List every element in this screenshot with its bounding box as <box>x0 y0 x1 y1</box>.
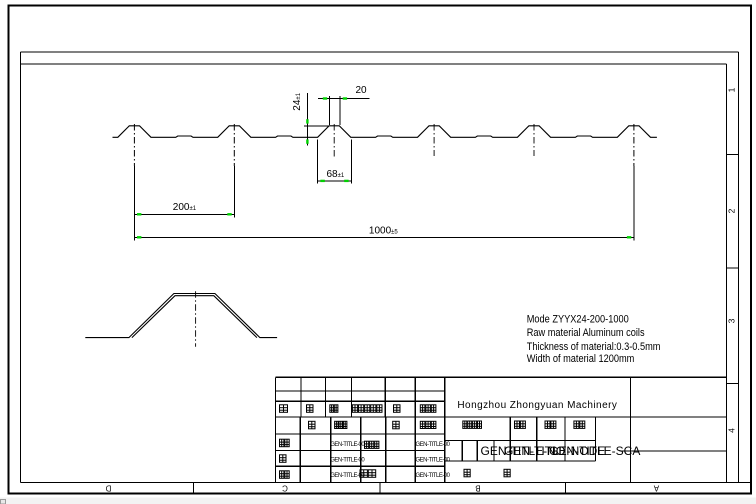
dim 68 ext line left <box>316 140 318 184</box>
zone tick bottom x=193.3 <box>192 483 194 494</box>
dim 1000 arrow left <box>137 236 141 238</box>
title block lower column line x=330.7 <box>330 417 332 483</box>
title block row line r2 (left) <box>276 400 445 402</box>
dim 24 line vertical <box>306 93 308 146</box>
svg-text:Raw material Aluminum coils: Raw material Aluminum coils <box>527 328 645 340</box>
dim 68 arrow left <box>320 180 324 182</box>
label nianyueri 2 <box>335 421 347 428</box>
title block lower column line x=385.8 <box>385 417 387 483</box>
title block right label row bottom <box>445 440 596 442</box>
dim 1000 line <box>134 236 634 238</box>
title block upper column line x=325.6 <box>325 377 327 417</box>
dim 20 arrow right <box>343 97 347 99</box>
dim 20 line <box>318 98 370 100</box>
rib centerline extension x=134 <box>133 166 135 241</box>
rib centerline x=234 <box>233 124 235 166</box>
zone tick right y=268.2 <box>727 267 739 269</box>
title block stage-mark box line x=477.3 <box>476 441 478 462</box>
title block right cell line x=565.0 <box>564 417 566 461</box>
title block right GEN row bottom <box>445 460 596 462</box>
zone tick right y=154.5 <box>727 154 739 156</box>
label qianming 3 <box>393 421 400 429</box>
svg-text:GEN-TITLE-00: GEN-TITLE-00 <box>330 473 365 479</box>
title block lower column line x=300.3 <box>299 417 301 483</box>
title block right cells right edge <box>595 417 597 461</box>
svg-text:GEN-TITLE-00: GEN-TITLE-00 <box>330 442 365 448</box>
rib centerline extension x=634 <box>633 166 635 241</box>
svg-text:B: B <box>475 484 480 493</box>
label bili (scale) <box>574 421 585 428</box>
dim 24 arrow upper <box>306 119 308 123</box>
detail view centerline <box>195 291 197 347</box>
detail view rib inner line (material thickness) <box>132 296 257 338</box>
svg-text:2: 2 <box>726 208 736 213</box>
label fenqu (zone) <box>330 405 338 413</box>
rib centerline x=534 <box>533 124 535 156</box>
svg-text:20: 20 <box>356 85 368 96</box>
title block upper column line x=300.9 <box>300 377 302 417</box>
dim 1000 arrow right <box>627 236 631 238</box>
title block row line r6 (left) <box>276 465 445 467</box>
inner frame right line <box>726 64 728 483</box>
scale placeholder line <box>619 450 726 452</box>
dim 68 line <box>317 180 351 182</box>
zone tick right y=383.6 <box>727 383 739 385</box>
svg-text:Mode ZYYX24-200-1000: Mode ZYYX24-200-1000 <box>527 314 629 326</box>
label biaoji (mark) <box>280 405 288 413</box>
window bottom gray strip <box>0 498 756 504</box>
svg-text:GEN-TITLE-00: GEN-TITLE-00 <box>416 442 451 448</box>
title block row line r4 (left) <box>276 433 445 435</box>
title block right column divider <box>629 377 631 482</box>
rib centerline x=634 <box>633 124 635 166</box>
svg-text:GEN-TITLE-SCA: GEN-TITLE-SCA <box>549 444 640 458</box>
label genggai wenjianhao (change file no) <box>352 405 382 413</box>
title block stage-mark box line x=494.0 <box>493 441 495 462</box>
dim 20 ext line right <box>339 96 341 125</box>
note text: Width of material 1200mm <box>527 353 635 365</box>
svg-text:C: C <box>282 484 288 493</box>
zone tick bottom x=380 <box>379 483 381 494</box>
title block stage-mark box line x=462.2 <box>461 441 463 462</box>
svg-text:A: A <box>653 484 659 493</box>
title block row line r1 (left) <box>276 390 445 392</box>
inner frame left line <box>20 52 22 483</box>
dim 20 arrow left <box>323 97 327 99</box>
note text: Mode ZYYX24-200-1000 <box>527 314 629 326</box>
label nianyueri (date) <box>420 405 436 413</box>
dim 24 arrow lower <box>306 139 308 143</box>
title block lower column line x=360.7 <box>360 417 362 483</box>
rib centerline extension x=234 <box>233 166 235 218</box>
dim 24 ext line at rib top <box>304 125 329 127</box>
svg-text:D: D <box>105 484 111 493</box>
label qianming 2 <box>309 421 316 429</box>
rib centerline x=334 <box>333 124 335 158</box>
label biaozhunhua (standardization) <box>365 441 379 448</box>
label zhongliang (weight) <box>545 421 556 428</box>
title block top line <box>276 376 727 378</box>
title block row line r5 (left) <box>276 450 445 452</box>
title block upper column line x=351.5 <box>351 377 353 417</box>
roof panel profile section (6 trapezoidal ribs) <box>113 126 657 138</box>
label nianyueri 3 <box>420 421 436 428</box>
title block upper column line x=415.3 <box>414 377 416 417</box>
note text: Thickness of material:0.3-0.5mm <box>527 341 661 353</box>
inner frame top band upper line <box>21 51 739 53</box>
rib centerline x=134 <box>133 124 135 166</box>
note text: Raw material Aluminum coils <box>527 328 645 340</box>
label zhiliang (mass) <box>515 421 526 428</box>
title block right cell line x=510.2 <box>509 417 511 461</box>
title block section divider <box>444 377 446 482</box>
rib centerline x=434 <box>433 124 435 156</box>
label pizhun (approval) <box>360 470 376 478</box>
title block upper column line x=385.2 <box>384 377 386 417</box>
dim 20 ext line left <box>329 96 331 125</box>
zone tick bottom x=565.5 <box>565 483 567 494</box>
svg-text:4: 4 <box>726 428 736 433</box>
dim 200 line <box>134 213 234 215</box>
dim 200 arrow right <box>227 213 231 215</box>
label sheji (design) <box>280 439 290 447</box>
label jieduanbiaoji (stage mark) <box>463 421 482 428</box>
inner frame bottom line <box>21 482 752 484</box>
title block left edge <box>275 377 277 482</box>
svg-text:Hongzhou Zhongyuan Machinery: Hongzhou Zhongyuan Machinery <box>457 400 617 411</box>
dim 68 ext line right <box>351 140 353 184</box>
zone band right line <box>738 52 740 483</box>
bottom-left corner widget <box>1 500 6 504</box>
title block right cell line x=536.8 <box>536 417 538 461</box>
svg-text:GEN-TITLE-00: GEN-TITLE-00 <box>416 457 451 463</box>
svg-text:Width of material 1200mm: Width of material 1200mm <box>527 353 635 365</box>
label shenhe (check) <box>280 455 287 463</box>
label di (sheet no) <box>504 469 510 477</box>
detail view rib outer line <box>85 294 277 338</box>
svg-text:GEN-TITLE-00: GEN-TITLE-00 <box>330 457 365 463</box>
dim 68 arrow right <box>344 180 348 182</box>
title block lower column line x=415.3 <box>414 417 416 483</box>
dim 200 arrow left <box>137 213 141 215</box>
svg-text:1: 1 <box>726 87 736 92</box>
svg-text:Thickness of material:0.3-0.5m: Thickness of material:0.3-0.5mm <box>527 341 661 353</box>
label qianming (signature) <box>394 405 401 413</box>
svg-text:3: 3 <box>726 318 736 323</box>
title block row line r3 full width <box>276 416 727 418</box>
inner frame top line <box>21 63 727 65</box>
label chushu (count) <box>307 405 314 413</box>
label gongyi (process) <box>280 471 290 479</box>
label gong (total) sheets <box>464 469 470 477</box>
svg-text:GEN-TITLE-00: GEN-TITLE-00 <box>416 473 451 479</box>
